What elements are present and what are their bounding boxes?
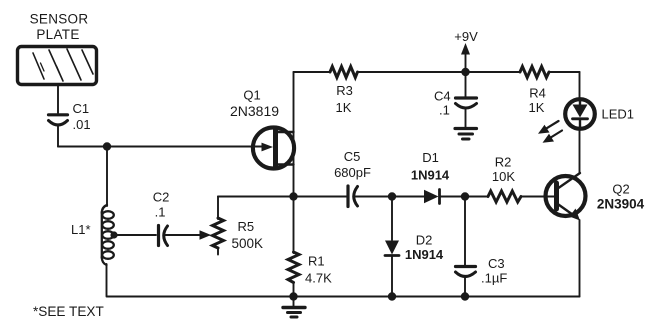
svg-text:R1: R1 — [308, 254, 325, 269]
capacitor C1 — [49, 115, 68, 125]
svg-text:C2: C2 — [153, 190, 170, 205]
svg-text:.01: .01 — [73, 117, 91, 132]
svg-text:PLATE: PLATE — [36, 27, 79, 42]
wire Q1 drain up to top rail and source down to junction — [293, 72, 295, 197]
label C2 .1 — [153, 190, 170, 220]
label R2 10K — [492, 155, 515, 185]
svg-text:C1: C1 — [73, 101, 90, 116]
svg-text:D1: D1 — [422, 150, 439, 165]
label D1 1N914 — [411, 150, 450, 183]
svg-text:500K: 500K — [232, 236, 264, 251]
label R3 1K — [336, 83, 353, 115]
transistor Q1 (JFET) — [253, 127, 294, 168]
label R1 4.7K — [305, 254, 332, 286]
label D2 1N914 — [405, 233, 444, 263]
svg-text:*SEE TEXT: *SEE TEXT — [33, 304, 104, 319]
capacitor C5 — [348, 186, 358, 207]
svg-text:Q1: Q1 — [243, 88, 260, 103]
capacitor C2 — [159, 226, 168, 246]
label C5 680pF — [334, 149, 371, 180]
wire Q2 emitter to ground rail — [579, 220, 581, 297]
resistor R1 — [288, 197, 299, 297]
svg-text:.1: .1 — [155, 205, 166, 220]
resistor R2 — [488, 191, 521, 202]
svg-text:R2: R2 — [495, 155, 512, 170]
node +9V junction — [461, 68, 469, 76]
node Q1 source junction — [289, 192, 297, 200]
wire C4 to ground — [465, 110, 467, 128]
inductor L1 — [102, 205, 114, 265]
node junction gate/L1 — [103, 142, 111, 150]
label SENSOR PLATE — [30, 12, 89, 43]
svg-text:.1µF: .1µF — [481, 271, 507, 286]
svg-text:LED1: LED1 — [602, 107, 635, 122]
svg-text:1N914: 1N914 — [411, 168, 450, 183]
svg-text:SENSOR: SENSOR — [30, 12, 89, 27]
svg-text:D2: D2 — [416, 233, 433, 248]
sensor plate — [18, 47, 97, 85]
svg-text:R3: R3 — [336, 83, 353, 98]
svg-text:Q2: Q2 — [612, 182, 629, 197]
capacitor C4 — [456, 98, 477, 108]
label Q1 2N3819 — [230, 88, 279, 120]
wire L1 bottom to ground rail — [106, 264, 108, 297]
wire gate line — [58, 146, 266, 148]
node C5/D2 junction — [388, 192, 396, 200]
resistor R3 — [330, 67, 358, 78]
svg-text:C3: C3 — [488, 256, 505, 271]
svg-text:10K: 10K — [492, 169, 515, 184]
wire LED1 to Q2 collector — [579, 128, 581, 173]
label R4 1K — [529, 86, 546, 116]
svg-text:R5: R5 — [238, 219, 255, 234]
node D1/C3/R2 junction — [461, 192, 469, 200]
wire R5 top to mid rail / C5 — [218, 196, 347, 198]
ground symbol below C4 — [455, 129, 477, 140]
label C1 .01 — [73, 101, 91, 132]
wire tap to C2 — [114, 234, 157, 236]
diode D1 — [424, 190, 440, 204]
resistor R4 — [520, 67, 549, 78]
potentiometer R5 — [213, 197, 224, 255]
wire D2 to ground rail — [391, 256, 393, 297]
capacitor C3 — [456, 267, 476, 277]
label R5 500K — [232, 219, 264, 251]
svg-text:680pF: 680pF — [334, 165, 371, 180]
label Q2 2N3904 — [597, 182, 645, 212]
svg-text:4.7K: 4.7K — [305, 271, 332, 286]
svg-text:1K: 1K — [529, 100, 545, 115]
svg-text:1N914: 1N914 — [405, 247, 444, 262]
wire C3 stem — [464, 197, 466, 266]
node R1 / ground rail junction — [289, 292, 297, 300]
svg-text:R4: R4 — [529, 86, 546, 101]
svg-text:C4: C4 — [434, 89, 451, 104]
node C3/ground rail — [461, 292, 469, 300]
wire top rail corner down to LED1 — [579, 72, 581, 100]
node D2/ground rail — [388, 292, 396, 300]
LED1 — [565, 99, 595, 129]
wire mid rail C5 to D1 to R2 — [356, 196, 555, 198]
node L1 tap — [110, 231, 117, 238]
diode D2 — [385, 241, 399, 256]
wire junction down to L1 — [106, 147, 108, 207]
svg-text:.1: .1 — [439, 103, 450, 118]
LED1 light arrows — [538, 121, 562, 143]
wire C1 to gate line — [57, 127, 59, 147]
wire top rail — [294, 71, 580, 73]
svg-text:L1*: L1* — [71, 222, 91, 237]
transistor Q2 (NPN) — [546, 173, 586, 221]
wire ground rail — [107, 296, 580, 298]
label C4 .1 — [434, 89, 451, 118]
svg-text:2N3819: 2N3819 — [230, 103, 279, 119]
ground symbol below R1 — [283, 297, 305, 318]
svg-text:C5: C5 — [344, 149, 361, 164]
wire +9V junction to C4 — [465, 72, 467, 97]
svg-text:+9V: +9V — [454, 29, 478, 44]
wire C3 to ground rail — [464, 278, 466, 297]
wire D2 stem — [391, 197, 393, 241]
wire C2 to R5 wiper arrow — [165, 230, 211, 240]
label C3 .1uF — [481, 256, 507, 286]
svg-text:2N3904: 2N3904 — [597, 197, 645, 212]
wire sensor plate to C1 — [57, 85, 59, 113]
svg-text:1K: 1K — [336, 100, 352, 115]
power +9V arrow — [461, 43, 470, 72]
